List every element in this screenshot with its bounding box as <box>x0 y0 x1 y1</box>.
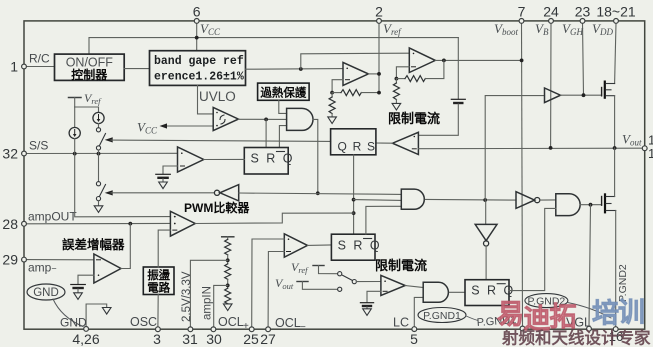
SR latch SR1 <box>244 148 294 175</box>
wire Vcc rail line2 from ON/OFF controller to current-limit reference <box>89 38 458 55</box>
pin 29 amp- <box>2 252 93 275</box>
wire AND1 third input tee down to SR1 latch <box>279 126 286 148</box>
svg-text:S/S: S/S <box>29 139 48 153</box>
svg-text:27: 27 <box>260 331 276 347</box>
pin 28 ampOUT + ampOUT wire <box>2 210 170 232</box>
op-amp U-UVLO comparator with hysteresis <box>213 107 238 130</box>
svg-text:LC: LC <box>393 316 409 330</box>
P.GND1 bubble <box>418 308 478 323</box>
wire band-gap output to buffer amps <box>246 53 410 71</box>
ON/OFF controller box <box>55 54 125 82</box>
svg-text:R/C: R/C <box>29 52 50 66</box>
wire PWM gating line A from inverter to AND2 <box>239 193 402 194</box>
svg-text:erence1.26±1%: erence1.26±1% <box>154 71 244 84</box>
svg-text:GND: GND <box>60 316 87 330</box>
svg-text:Q R S: Q R S <box>338 140 377 154</box>
oscillator box 振盪電路 <box>143 267 174 295</box>
current source I2 <box>93 112 104 123</box>
inverter G2 <box>516 192 540 209</box>
AND gate A3 <box>423 282 448 302</box>
SR latch SR3 <box>465 280 515 306</box>
wire oscillator to OSC pin <box>157 295 159 328</box>
svg-text:4,26: 4,26 <box>72 331 99 347</box>
svg-text:2.5V/3.3V: 2.5V/3.3V <box>181 271 193 322</box>
wire comparator CL1 output to QRS <box>376 142 393 144</box>
Vout pin on right border <box>622 132 653 162</box>
wire PWM output jog to SR2 S-input line <box>195 213 353 223</box>
svg-text:易: 易 <box>497 300 524 330</box>
bottom pins row <box>84 326 618 331</box>
svg-text:振盪: 振盪 <box>147 268 170 282</box>
resistor R-C2 to arrow ground <box>392 79 401 110</box>
wire AND2 output to inverter G2 <box>425 198 516 202</box>
wire low-side MOSFET source to P.GND2 pin <box>615 211 617 328</box>
switch S2 <box>94 154 113 213</box>
reference battery for current-limit comparator <box>418 38 465 136</box>
svg-text:培: 培 <box>592 299 619 329</box>
svg-text:24: 24 <box>543 4 559 20</box>
current source I1 <box>69 127 80 138</box>
AND gate A1 <box>287 108 313 130</box>
svg-text:S R Q: S R Q <box>338 239 382 253</box>
wire NOT gate to SR3 <box>485 246 487 280</box>
resistor R-B2 to arrow ground <box>328 93 337 124</box>
svg-text:6: 6 <box>193 4 201 20</box>
svg-text:−: − <box>300 322 306 333</box>
wire AND1 output down to PWM gating line <box>313 119 320 195</box>
pin 2 Vref <box>375 4 402 93</box>
reference for LC comparator <box>360 291 381 315</box>
wire switch S1 control line to QRS latch <box>111 140 331 141</box>
wire divider tap2 to ampIN pin <box>214 285 228 327</box>
svg-text:OCL: OCL <box>218 315 244 329</box>
svg-text:7: 7 <box>518 4 526 20</box>
error amplifier 誤差增幅器 <box>62 237 125 283</box>
svg-text:PWM比較器: PWM比較器 <box>184 200 250 215</box>
op-amp U-SS comparator <box>178 147 204 172</box>
wire high-side MOSFET source to Vout line <box>614 96 616 148</box>
reference battery for error amplifier <box>71 275 94 299</box>
GND pin chassis arrow <box>86 304 111 327</box>
wire OCL comparator output to SR2 <box>308 244 332 247</box>
svg-text:1: 1 <box>648 146 653 161</box>
low-side MOSFET Q2 <box>602 194 616 212</box>
svg-text:射频和天线设计专家: 射频和天线设计专家 <box>501 328 651 347</box>
svg-text:GND: GND <box>33 287 59 299</box>
PWM comparator 3-input <box>170 200 250 236</box>
svg-text:電路: 電路 <box>147 281 170 295</box>
GND bubble <box>27 284 83 327</box>
wire ON/OFF to band-gap box <box>124 68 149 70</box>
selector switch blade <box>343 275 381 283</box>
svg-text:控制器: 控制器 <box>71 67 108 82</box>
switch S1 (soft start) <box>96 124 112 154</box>
reference battery for SS comparator <box>156 166 178 189</box>
svg-text:30: 30 <box>206 331 222 347</box>
Vout output line <box>418 146 642 150</box>
svg-text:18~21: 18~21 <box>596 4 636 20</box>
wire inverter G2 to AND4 <box>540 199 556 201</box>
wire op-amp C output to Vboot node <box>435 59 523 63</box>
high-side MOSFET Q1 <box>602 82 615 98</box>
NOT gate G3 pointing down <box>475 200 497 246</box>
wire OCL- pin to comparator <box>268 252 284 328</box>
svg-text:限制電流: 限制電流 <box>375 258 427 273</box>
band gap reference box <box>150 51 246 86</box>
internal regulator divider chain <box>222 237 234 311</box>
feedback resistor R-B <box>330 80 381 96</box>
Vout selector tick <box>275 276 342 291</box>
wire SR2 Q output riser to AND2 <box>366 206 401 234</box>
svg-text:ampIN: ampIN <box>202 286 214 320</box>
wire AND4 output to low-side MOSFET gate and VGL <box>580 203 601 327</box>
current limit comparator U-CL1 (points left) <box>393 132 419 154</box>
wire OCL+ pin to comparator <box>252 239 285 327</box>
svg-text:OSC: OSC <box>130 315 157 329</box>
P.GND2 bubble <box>525 294 611 318</box>
wire op-amp B output to Vref pin line <box>368 72 381 76</box>
op-amp U-C <box>409 48 435 73</box>
SR latch SR2 <box>331 234 381 260</box>
Vref selector tick <box>291 260 342 276</box>
svg-text:拓: 拓 <box>550 302 577 332</box>
svg-text:S R Q: S R Q <box>251 152 295 166</box>
svg-text:OCL: OCL <box>275 316 301 330</box>
wire error amp output up to ampOUT line <box>121 224 130 269</box>
svg-text:3: 3 <box>153 331 161 347</box>
pin 1 R/C <box>10 52 54 75</box>
pin 6 Vcc <box>193 4 221 51</box>
svg-text:P.GND2: P.GND2 <box>617 264 629 302</box>
feedback resistor R-C <box>395 60 444 81</box>
wire low-side MOSFET drain to Vout line <box>614 148 616 197</box>
watermark 易迪拓培训 <box>497 298 645 335</box>
svg-text:29: 29 <box>2 252 18 268</box>
bottom pin labels <box>60 315 623 347</box>
svg-text:训: 训 <box>618 298 645 328</box>
wire QRS bottom to SR2 with taps <box>352 155 402 234</box>
pin 23 VGH <box>562 4 590 96</box>
wire LC comparator output to AND3 <box>405 286 423 288</box>
svg-text:5: 5 <box>410 331 418 347</box>
svg-text:P.GND1: P.GND1 <box>423 310 461 322</box>
wire thermal box to AND1 input <box>279 100 287 113</box>
svg-text:25: 25 <box>243 331 259 347</box>
wire oscillator to PWM comparator <box>158 230 170 267</box>
wire SS comparator output to SR1 <box>204 158 245 160</box>
wire UVLO output to AND1 <box>238 118 286 148</box>
svg-text:1: 1 <box>10 59 18 75</box>
wire AND2 node riser to high-side buffer <box>485 96 544 200</box>
pins 18~21 VDD <box>592 4 636 84</box>
pin 32 S/S + S/S wire <box>2 139 177 162</box>
svg-text:28: 28 <box>2 216 18 232</box>
svg-text:amp−: amp− <box>28 261 57 275</box>
svg-text:誤差增幅器: 誤差增幅器 <box>62 237 125 252</box>
wire AND3 output to SR3 <box>449 291 465 293</box>
high-side gate buffer <box>545 88 561 103</box>
LC comparator U-CL3 <box>381 275 405 295</box>
wire buffer output to high-side MOSFET gate <box>561 93 602 97</box>
svg-text:23: 23 <box>575 4 591 20</box>
AND gate A4 <box>556 194 580 216</box>
svg-text:過熱保護: 過熱保護 <box>259 85 306 99</box>
op-amp U-B Vref buffer <box>343 62 368 85</box>
wire SR3 output riser to AND4 <box>509 208 556 290</box>
pin 7 Vboot <box>494 4 526 331</box>
thermal protection box 過熱保護 <box>258 83 310 100</box>
Vcc arrow from UVLO non-inverting input <box>137 120 213 136</box>
wire band-gap bottom to UVLO inverting input <box>198 85 214 114</box>
svg-text:ampOUT: ampOUT <box>28 210 77 224</box>
svg-text:band gape ref: band gape ref <box>154 55 244 68</box>
svg-text:32: 32 <box>2 146 18 162</box>
pin 24 VB <box>535 4 559 148</box>
svg-text:限制電流: 限制電流 <box>388 111 440 126</box>
wire LC pin to AND3 <box>414 297 423 327</box>
OCL comparator U-CL2 <box>284 234 307 257</box>
wire switch S2 control line to inverter bubble <box>111 192 214 194</box>
inverter G1 driving switch S2 (points left) <box>214 185 238 201</box>
svg-text:31: 31 <box>182 331 198 347</box>
svg-text:2: 2 <box>375 4 383 20</box>
Vref supply tick above current sources <box>69 91 103 128</box>
svg-text:UVLO: UVLO <box>199 89 236 104</box>
AND gate A2 <box>401 189 424 209</box>
wire divider tap1 to 2.5V/3.3V pin <box>190 260 227 327</box>
wire current source I1 down to PWM comparator input <box>75 139 171 217</box>
QRS latch <box>331 129 377 155</box>
